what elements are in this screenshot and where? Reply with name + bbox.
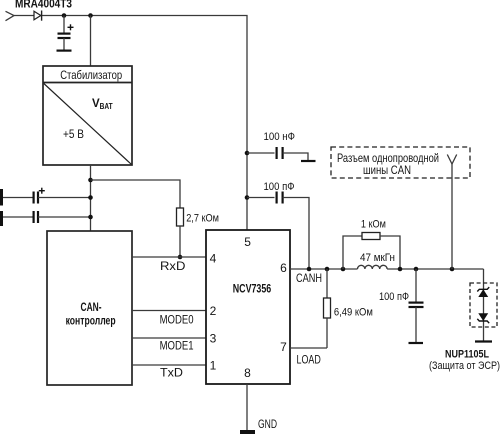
svg-text:RxD: RxD (160, 259, 186, 273)
node junction VBAT branch (88, 178, 93, 183)
svg-text:шины CAN: шины CAN (363, 163, 411, 177)
node junction 100pF (245, 195, 250, 200)
capacitor C3 (3, 211, 91, 223)
svg-text:1: 1 (210, 359, 217, 373)
svg-text:MRA4004T3: MRA4004T3 (15, 0, 72, 11)
ground for C4 (301, 160, 316, 162)
capacitor C6 100 пФ (379, 269, 424, 343)
svg-text:CAN-: CAN- (81, 300, 102, 314)
svg-text:MODE0: MODE0 (160, 313, 194, 327)
wire TxD (132, 364, 206, 366)
svg-text:47 мкГн: 47 мкГн (360, 252, 395, 264)
svg-text:2: 2 (210, 304, 217, 318)
svg-text:GND: GND (258, 417, 277, 431)
wire GND pin 8 (246, 384, 248, 430)
svg-text:6: 6 (280, 261, 287, 275)
svg-text:CANH: CANH (296, 271, 322, 285)
svg-text:100 пФ: 100 пФ (379, 291, 409, 303)
capacitor C4 100 нФ (247, 131, 308, 161)
wire RxD (132, 256, 206, 258)
wire resistor to RxD (179, 226, 181, 257)
input connector chevron (6, 11, 15, 20)
node junction 1k left (341, 267, 346, 272)
svg-text:контроллер: контроллер (66, 314, 116, 328)
svg-text:6,49 кОм: 6,49 кОм (334, 307, 373, 319)
wire LOAD (290, 347, 327, 349)
diode D1 MRA4004T3 (34, 11, 42, 21)
left connector terminal 1 (0, 189, 3, 206)
IC U1 NCV7356 (206, 230, 290, 384)
node junction C6 (414, 267, 419, 272)
wire CANH (290, 268, 358, 270)
svg-text:NCV7356: NCV7356 (233, 282, 272, 296)
capacitor C2 polarized (3, 188, 91, 204)
svg-text:2,7 кОм: 2,7 кОм (186, 213, 219, 225)
svg-text:(Защита от ЭСР): (Защита от ЭСР) (429, 360, 500, 372)
wire to pull-up resistor (91, 180, 181, 208)
wire to ESD protection (483, 269, 485, 341)
svg-text:5: 5 (244, 235, 251, 249)
capacitor C1 polarized (58, 16, 74, 51)
svg-text:8: 8 (244, 366, 251, 380)
node junction 100nF (245, 151, 250, 156)
svg-text:1 кОм: 1 кОм (361, 219, 386, 231)
svg-text:NUP1105L: NUP1105L (445, 349, 489, 361)
ground below C1 (57, 49, 72, 51)
node junction 1k right (398, 267, 403, 272)
CAN controller box (47, 231, 132, 385)
svg-text:3: 3 (210, 332, 217, 346)
node junction R load (325, 267, 330, 272)
ground for C6 (409, 342, 424, 344)
ground GND thick bar (240, 430, 255, 434)
dashed box NUP1105L (470, 283, 497, 327)
svg-text:LOAD: LOAD (297, 353, 322, 367)
svg-text:100 нФ: 100 нФ (264, 131, 296, 143)
capacitor C5 100 пФ (247, 181, 309, 269)
node junction C2 (88, 195, 93, 200)
TVS diode bottom (477, 313, 489, 323)
node junction bus (450, 267, 455, 272)
wire bus antenna (451, 164, 453, 269)
node junction on RxD (178, 255, 183, 260)
svg-text:4: 4 (210, 252, 217, 266)
inductor L1 47 мкГн (358, 252, 396, 269)
resistor R1 2,7 кОм (177, 208, 184, 226)
resistor R2 6,49 кОм (324, 269, 373, 348)
ground for NUP1105L (475, 340, 492, 342)
node junction at stabilizer top (88, 13, 93, 18)
wire MODE0 (132, 310, 206, 312)
svg-text:MODE1: MODE1 (160, 339, 194, 353)
wire top rail (14, 16, 247, 231)
dashed box single-wire CAN connector (331, 147, 470, 178)
svg-text:7: 7 (280, 340, 287, 354)
svg-text:+5 В: +5 В (63, 127, 84, 141)
wire stabilizer bottom to CAN controller (90, 165, 92, 231)
svg-text:TxD: TxD (160, 366, 183, 380)
connector chevron antenna (447, 155, 456, 165)
resistor R3 1 кОм parallel branch (343, 219, 400, 270)
wire MODE1 (132, 337, 206, 339)
wire CANH right section (387, 268, 483, 270)
voltage regulator box (Стабилизатор) (43, 66, 132, 165)
left connector terminal 2 (0, 211, 3, 226)
node junction C5 to CANH (307, 267, 312, 272)
svg-text:Стабилизатор: Стабилизатор (60, 68, 122, 82)
wire stabilizer top (90, 16, 92, 67)
svg-text:100 пФ: 100 пФ (264, 181, 295, 193)
node junction at C1 top (62, 13, 67, 18)
TVS diode top (477, 287, 489, 297)
node junction C3 (88, 215, 93, 220)
